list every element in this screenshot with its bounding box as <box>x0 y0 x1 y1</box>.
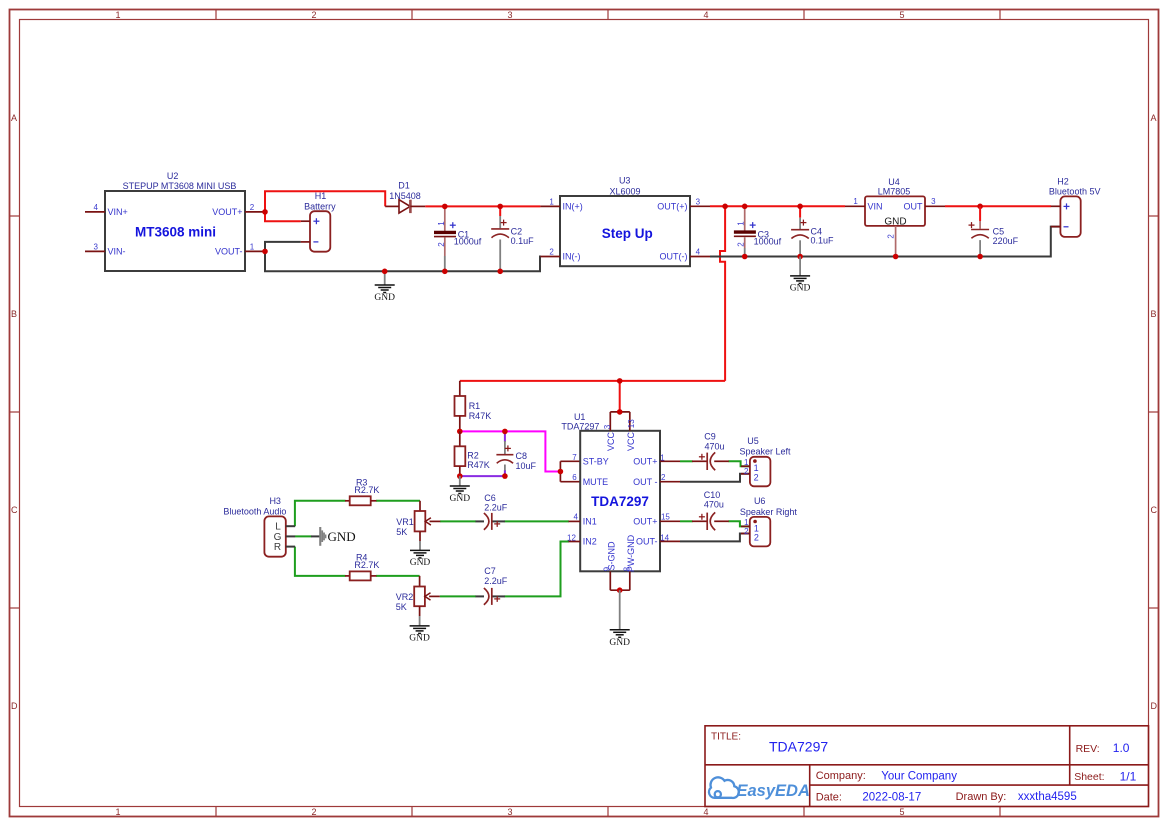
svg-text:OUT+: OUT+ <box>633 457 657 467</box>
svg-text:D1: D1 <box>398 180 410 190</box>
U3 pin 2 IN(-) <box>540 256 560 258</box>
node C1 top junction <box>442 204 448 210</box>
svg-text:R1: R1 <box>469 401 481 411</box>
svg-text:3: 3 <box>93 243 98 252</box>
wire U1 OUT-2 to U5 pin2 (black) <box>680 474 750 482</box>
svg-text:GND: GND <box>374 293 395 303</box>
connector U6 Speaker Right body <box>750 517 771 547</box>
svg-text:Bluetooth 5V: Bluetooth 5V <box>1049 186 1101 196</box>
svg-text:R47K: R47K <box>467 460 490 470</box>
svg-text:VCC: VCC <box>626 432 636 452</box>
wire VOUT+ to D1 (red) <box>265 191 385 212</box>
node C3 top junction <box>742 204 748 210</box>
svg-text:OUT: OUT <box>904 201 924 211</box>
wire ground rail battery row (black) <box>265 251 541 271</box>
potentiometer VR1 5K <box>415 501 441 541</box>
svg-text:GND: GND <box>409 634 430 644</box>
wire C6 to U1 IN1 (green) <box>504 520 569 522</box>
ground under VR1 <box>410 541 431 568</box>
svg-text:3: 3 <box>507 10 512 20</box>
diode D1 1N5408 <box>385 200 425 213</box>
U5 pin 2 <box>741 473 750 475</box>
wire R1 R2 node to ST-BY (magenta) <box>460 431 561 471</box>
svg-text:1/1: 1/1 <box>1120 770 1137 784</box>
svg-text:PW-GND: PW-GND <box>626 534 636 572</box>
svg-text:Step Up: Step Up <box>602 226 653 241</box>
svg-text:1: 1 <box>250 243 255 252</box>
svg-text:R47K: R47K <box>469 411 492 421</box>
svg-text:1: 1 <box>660 453 665 462</box>
U4 pin 2 gnd lead <box>895 226 897 257</box>
svg-text:OUT(+): OUT(+) <box>657 202 687 212</box>
connector U5 Speaker Left body <box>750 457 771 487</box>
svg-text:GND: GND <box>609 638 630 648</box>
svg-text:1N5408: 1N5408 <box>389 191 421 201</box>
ground under R2 <box>450 476 471 504</box>
node power rail tee <box>617 378 623 384</box>
U3 pin 3 OUT(+) <box>690 205 710 207</box>
svg-text:2.2uF: 2.2uF <box>484 576 508 586</box>
U1 pin 12 IN2 <box>569 541 581 543</box>
svg-text:5: 5 <box>899 10 904 20</box>
wire C7 to U1 IN2 (green) <box>504 542 569 597</box>
H1 pin + <box>301 220 310 222</box>
wire mid power rail to R1 (red) <box>460 380 725 382</box>
wire H3 G AGND stub (black) <box>311 535 320 537</box>
frame row ticks right <box>1148 216 1158 608</box>
H3 pin G <box>286 535 295 537</box>
capacitor C8 10uF <box>496 441 513 471</box>
svg-text:2: 2 <box>886 234 895 239</box>
svg-text:C7: C7 <box>484 566 496 576</box>
U2 pin 3 VIN- <box>85 250 105 252</box>
svg-text:H2: H2 <box>1057 177 1069 187</box>
svg-text:220uF: 220uF <box>993 236 1019 246</box>
resistor R4 R2.7K <box>345 571 376 580</box>
svg-text:EasyEDA: EasyEDA <box>737 782 810 800</box>
connector H2 Bluetooth 5V body <box>1060 196 1080 237</box>
ground battery rail <box>374 271 395 303</box>
wire VR1 wiper to C6 (green) <box>440 520 476 522</box>
svg-text:1: 1 <box>853 197 858 206</box>
svg-text:2: 2 <box>754 533 759 543</box>
EasyEDA logo cloud <box>709 777 739 798</box>
H2 pin + <box>1051 205 1061 207</box>
node C5 bottom junction <box>977 254 983 260</box>
node U4 OUT junction <box>977 204 983 210</box>
svg-text:R2.7K: R2.7K <box>354 485 379 495</box>
wire U4 OUT to H2 plus (red) <box>945 205 1051 207</box>
capacitor C7 2.2uF <box>484 588 500 605</box>
svg-text:1: 1 <box>744 458 749 467</box>
svg-text:4: 4 <box>703 807 708 817</box>
wire C9 to U5 pin1 (green) <box>728 461 750 466</box>
capacitor C1 1000uf <box>434 206 456 271</box>
resistor R1 R47K <box>455 381 466 432</box>
svg-text:Bluetooth Audio: Bluetooth Audio <box>223 506 286 516</box>
frame column labels top <box>115 10 904 20</box>
svg-text:1000uf: 1000uf <box>754 236 782 246</box>
svg-text:15: 15 <box>661 513 670 522</box>
svg-text:Speaker Right: Speaker Right <box>740 507 798 517</box>
wire power tee to U1 VCC (red) <box>619 381 621 412</box>
svg-text:Batterry: Batterry <box>304 201 336 211</box>
wire OUT(+) vertical down with hop (red) <box>720 206 725 381</box>
H2 pin - <box>1051 226 1061 228</box>
svg-text:470u: 470u <box>704 441 724 451</box>
svg-text:A: A <box>1151 113 1157 123</box>
svg-text:VR2: VR2 <box>396 592 414 602</box>
ground under VR2 <box>409 616 430 644</box>
svg-text:R2.7K: R2.7K <box>354 560 379 570</box>
node C2 bottom junction <box>497 269 503 275</box>
svg-text:4: 4 <box>703 10 708 20</box>
node battery gnd junction <box>382 269 388 275</box>
svg-text:1: 1 <box>115 807 120 817</box>
svg-text:470u: 470u <box>704 500 724 510</box>
capacitor C10 470u <box>692 512 729 530</box>
wire D1 cathode to U3 IN(+) (red) <box>425 205 540 207</box>
connector H1 Batterry body <box>310 211 330 252</box>
svg-text:Speaker Left: Speaker Left <box>739 446 791 456</box>
wire C7 pin segments (black) <box>476 595 505 597</box>
H1 pin - <box>301 241 310 243</box>
svg-text:C8: C8 <box>516 451 528 461</box>
wire C6 pin segments (black) <box>476 520 505 522</box>
frame row labels right <box>1151 113 1158 711</box>
svg-text:TDA7297: TDA7297 <box>769 739 828 755</box>
svg-text:LM7805: LM7805 <box>878 186 911 196</box>
svg-text:2: 2 <box>437 242 446 247</box>
IC U4 LM7805 body <box>865 196 925 226</box>
svg-text:12: 12 <box>567 533 576 542</box>
svg-text:C2: C2 <box>511 226 523 236</box>
svg-text:1000uf: 1000uf <box>454 237 482 247</box>
svg-text:2: 2 <box>744 467 749 476</box>
U1 pin 15 OUT+ <box>660 520 680 522</box>
ground under C4 <box>790 257 811 294</box>
svg-text:C5: C5 <box>993 226 1005 236</box>
svg-text:Company:: Company: <box>816 770 866 782</box>
svg-text:5K: 5K <box>396 602 407 612</box>
svg-text:OUT(-): OUT(-) <box>660 252 688 262</box>
svg-text:MUTE: MUTE <box>583 477 609 487</box>
svg-text:MT3608 mini: MT3608 mini <box>135 224 216 239</box>
svg-text:OUT -: OUT - <box>633 477 657 487</box>
node C4 top junction <box>797 204 803 210</box>
svg-text:B: B <box>11 309 17 319</box>
capacitor C6 2.2uF <box>484 513 500 530</box>
svg-text:U5: U5 <box>747 436 759 446</box>
svg-text:0.1uF: 0.1uF <box>511 236 535 246</box>
wire R2 bottom to C8 bottom (purple) <box>460 475 505 477</box>
node VOUT- junction <box>262 249 268 255</box>
U5 pin1 marker dot <box>753 459 757 463</box>
wire H1 minus to VOUT- (black) <box>265 242 301 252</box>
svg-text:OUT+: OUT+ <box>633 517 657 527</box>
node C4 bottom junction <box>797 254 803 260</box>
U2 pin 1 VOUT- <box>245 250 265 252</box>
connector H3 Bluetooth Audio body <box>264 516 285 556</box>
capacitor C2 0.1uF <box>491 206 509 271</box>
svg-text:1: 1 <box>115 10 120 20</box>
svg-text:VOUT-: VOUT- <box>215 247 243 257</box>
frame column ticks bottom <box>216 807 1000 817</box>
node VOUT+ junction <box>262 209 268 215</box>
title block outline <box>705 726 1149 807</box>
svg-text:2: 2 <box>250 203 255 212</box>
wire U1 OUT+1 to C9 (green) <box>680 460 693 462</box>
node C8 top junction <box>502 429 508 435</box>
svg-text:5: 5 <box>899 807 904 817</box>
svg-text:3: 3 <box>696 197 701 206</box>
capacitor C4 0.1uF <box>791 206 809 256</box>
frame column labels bottom <box>115 807 904 817</box>
IC U2 MT3608 mini body <box>105 191 245 271</box>
wire H3 R to R4 (green) <box>295 547 346 576</box>
svg-text:C: C <box>11 505 18 515</box>
node ST-BY MUTE bracket junction <box>558 461 581 481</box>
node U4 gnd junction <box>893 254 899 260</box>
svg-text:xxxtha4595: xxxtha4595 <box>1018 791 1077 803</box>
svg-text:13: 13 <box>627 419 636 428</box>
node C8 bottom junction <box>502 473 508 479</box>
IC U3 XL6009 body <box>560 196 690 266</box>
U1 VCC bracket <box>610 409 630 431</box>
svg-text:U2: U2 <box>167 171 179 181</box>
svg-text:14: 14 <box>660 533 669 542</box>
wire U3 OUT(+) rail (red) <box>710 205 845 207</box>
wire U1 OUT-14 to U6 pin2 (black) <box>680 534 750 542</box>
svg-text:2: 2 <box>549 247 554 256</box>
svg-text:VCC: VCC <box>606 432 616 452</box>
U2 pin 4 VIN+ <box>85 211 105 213</box>
svg-text:1: 1 <box>437 221 446 226</box>
svg-text:5K: 5K <box>396 527 407 537</box>
svg-text:2: 2 <box>744 527 749 536</box>
node C1 bottom junction <box>442 269 448 275</box>
svg-text:VIN+: VIN+ <box>108 207 128 217</box>
svg-text:R: R <box>274 542 281 553</box>
svg-text:L: L <box>275 522 281 533</box>
svg-text:TDA7297: TDA7297 <box>561 421 599 431</box>
svg-text:2022-08-17: 2022-08-17 <box>862 791 921 803</box>
svg-text:D: D <box>1151 701 1158 711</box>
wire C10 to U6 pin1 (green) <box>728 521 749 526</box>
svg-text:C9: C9 <box>704 431 716 441</box>
svg-text:4: 4 <box>93 203 98 212</box>
svg-text:TITLE:: TITLE: <box>711 732 741 743</box>
svg-text:C: C <box>1151 505 1158 515</box>
svg-text:4: 4 <box>573 513 578 522</box>
U1 gnd bracket <box>610 571 630 593</box>
svg-text:2.2uF: 2.2uF <box>484 503 508 513</box>
svg-text:VR1: VR1 <box>396 517 414 527</box>
svg-text:1: 1 <box>736 221 745 226</box>
frame column ticks top <box>216 10 1000 20</box>
capacitor C3 1000uf <box>734 206 756 256</box>
potentiometer VR2 5K <box>414 576 440 616</box>
svg-text:D: D <box>11 701 18 711</box>
H3 pin R <box>286 546 295 548</box>
resistor R2 R47K <box>455 431 466 476</box>
svg-text:Sheet:: Sheet: <box>1074 771 1104 783</box>
svg-text:1: 1 <box>549 197 554 206</box>
svg-text:H1: H1 <box>315 191 327 201</box>
capacitor C9 470u <box>692 452 729 470</box>
H3 pin L <box>286 525 295 527</box>
U3 pin 4 OUT(-) <box>690 256 710 258</box>
svg-text:S-GND: S-GND <box>606 541 616 571</box>
svg-text:VIN-: VIN- <box>108 247 126 257</box>
svg-text:REV:: REV: <box>1076 743 1100 755</box>
svg-text:3: 3 <box>931 197 936 206</box>
svg-text:GND: GND <box>790 284 811 294</box>
svg-text:H3: H3 <box>269 496 281 506</box>
svg-text:B: B <box>1151 309 1157 319</box>
node R1 bottom junction <box>457 429 463 435</box>
svg-text:STEPUP MT3608 MINI USB: STEPUP MT3608 MINI USB <box>123 181 237 191</box>
svg-text:2: 2 <box>311 10 316 20</box>
U1 pin 2 OUT- <box>660 481 680 483</box>
U1 pin 1 OUT+ <box>660 460 680 462</box>
svg-text:VOUT+: VOUT+ <box>212 207 242 217</box>
U6 pin1 marker dot <box>753 520 757 524</box>
U2 pin 2 VOUT+ <box>245 211 265 213</box>
IC U1 TDA7297 body <box>580 431 660 572</box>
svg-text:VIN: VIN <box>868 201 883 211</box>
svg-text:Drawn By:: Drawn By: <box>956 791 1007 803</box>
wire VR2 wiper to C7 (green) <box>440 595 476 597</box>
svg-text:1: 1 <box>744 518 749 527</box>
svg-text:U3: U3 <box>619 176 631 186</box>
svg-text:GND: GND <box>410 558 431 568</box>
svg-text:A: A <box>11 113 17 123</box>
U3 pin 1 IN(+) <box>540 205 560 207</box>
svg-text:7: 7 <box>572 453 577 462</box>
svg-text:U6: U6 <box>754 496 766 506</box>
wire R4 to VR2 top (green) <box>376 575 420 577</box>
wire H3 L to R3 (green) <box>295 501 346 526</box>
svg-text:2: 2 <box>736 242 745 247</box>
svg-text:OUT-: OUT- <box>636 537 658 547</box>
U4 pin 1 VIN <box>845 205 865 207</box>
U1 pin 14 OUT- <box>660 540 680 542</box>
svg-text:GND: GND <box>328 529 356 544</box>
node C3 bottom junction <box>742 254 748 260</box>
svg-text:6: 6 <box>572 473 577 482</box>
wire U1 OUT+15 to C10 (green) <box>680 520 693 522</box>
frame row labels left <box>11 113 18 711</box>
svg-text:0.1uF: 0.1uF <box>811 236 835 246</box>
svg-text:TDA7297: TDA7297 <box>591 494 649 509</box>
U5 pin 1 <box>741 465 750 467</box>
svg-text:2: 2 <box>311 807 316 817</box>
wire U3 OUT(-) ground rail (black) <box>710 227 1060 257</box>
svg-text:1.0: 1.0 <box>1113 741 1130 755</box>
svg-text:IN(-): IN(-) <box>563 252 581 262</box>
svg-text:3: 3 <box>603 424 612 429</box>
svg-text:C10: C10 <box>704 490 721 500</box>
wire H3 G to AGND (green) <box>295 535 312 537</box>
svg-text:10uF: 10uF <box>516 461 537 471</box>
svg-text:IN(+): IN(+) <box>563 202 583 212</box>
wire C8 bottom violet stub <box>504 470 506 476</box>
svg-text:2: 2 <box>661 473 666 482</box>
node OUT(+) junction <box>722 204 728 210</box>
U4 pin 3 OUT <box>925 205 945 207</box>
U6 pin 1 <box>741 525 750 527</box>
U6 pin 2 <box>741 533 750 535</box>
svg-text:3: 3 <box>507 807 512 817</box>
U1 pin 4 IN1 <box>569 520 581 522</box>
wire C8 top violet stub <box>504 431 506 442</box>
frame row ticks left <box>10 216 20 608</box>
svg-text:XL6009: XL6009 <box>609 186 640 196</box>
capacitor C5 220uF <box>969 206 990 256</box>
ground under U1 <box>609 590 630 648</box>
svg-text:4: 4 <box>696 247 701 256</box>
wire R3 to VR1 top (green) <box>376 500 420 502</box>
node R2 bottom junction <box>457 473 463 479</box>
svg-text:2: 2 <box>754 473 759 483</box>
svg-text:Date:: Date: <box>816 791 842 803</box>
svg-text:GND: GND <box>450 494 471 504</box>
svg-text:ST-BY: ST-BY <box>583 457 609 467</box>
svg-text:Your Company: Your Company <box>881 770 957 782</box>
wire VOUT+ to H1 plus (red) <box>265 212 301 221</box>
ground AGND right-pointing at H3 G <box>319 527 326 546</box>
svg-text:IN1: IN1 <box>583 517 597 527</box>
svg-text:IN2: IN2 <box>583 537 597 547</box>
node C2 top junction <box>497 204 503 210</box>
resistor R3 R2.7K <box>345 496 376 505</box>
